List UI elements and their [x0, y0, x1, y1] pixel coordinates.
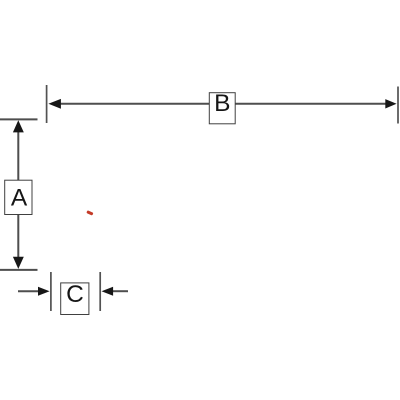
- B label box: [209, 93, 235, 124]
- svg-text:A: A: [11, 184, 28, 211]
- A top arrowhead: [13, 120, 24, 132]
- wire: A bottom extension line: [0, 269, 38, 271]
- svg-text:B: B: [214, 90, 230, 117]
- wire: A top extension line: [0, 118, 38, 120]
- C left arrowhead: [38, 287, 50, 296]
- dimension B: [47, 85, 398, 124]
- dimension A: [0, 119, 38, 270]
- wire: B dimension main line: [58, 103, 386, 105]
- B left arrowhead: [48, 99, 61, 109]
- C label box: [61, 283, 89, 315]
- wire: C right stub line: [112, 290, 128, 292]
- svg-text:C: C: [66, 281, 84, 308]
- node: B left extension tick: [46, 85, 48, 123]
- node: C right extension tick: [99, 272, 101, 311]
- A bottom arrowhead: [13, 257, 24, 269]
- B right arrowhead: [385, 99, 396, 108]
- wire: C left stub line: [18, 290, 39, 292]
- red annotation mark: [86, 210, 93, 215]
- node: B right extension tick: [397, 87, 399, 124]
- dimension C: [18, 272, 128, 315]
- A label box: [5, 180, 32, 214]
- node: C left extension tick: [50, 272, 52, 311]
- wire: A dimension main line: [17, 130, 19, 258]
- C right arrowhead: [102, 287, 114, 296]
